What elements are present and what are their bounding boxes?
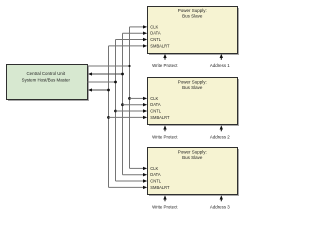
node CLK junction at U1 wire: [128, 65, 130, 67]
svg-text:Write Protect: Write Protect: [152, 134, 178, 139]
wire CNTL branch to PS1: [116, 39, 144, 41]
arrowhead SMBALRT into PS2: [143, 116, 147, 119]
svg-text:Power Supply:: Power Supply:: [178, 8, 207, 13]
arrow Write Protect into PS3: [163, 195, 166, 201]
svg-text:CLK: CLK: [150, 166, 158, 171]
label PS2 title: Power Supply: Bus Slave: [178, 79, 207, 90]
svg-text:Bus Slave: Bus Slave: [182, 85, 203, 90]
svg-text:SMBALRT: SMBALRT: [150, 115, 170, 120]
block U1: Central Control Unit (System Host/Bus Master): [7, 65, 90, 102]
arrow Write Protect into PS2: [163, 125, 166, 131]
arrowhead SMBALRT into U1: [88, 88, 92, 91]
svg-text:Address 2: Address 2: [210, 134, 230, 139]
wire SMBALRT from bus to U1: [92, 89, 109, 91]
arrow Write Protect into PS1: [163, 54, 166, 60]
wire SMBALRT branch to PS1: [109, 45, 144, 47]
wire CLK branch to PS3: [130, 167, 144, 169]
label PS1 title: Power Supply: Bus Slave: [178, 8, 207, 19]
net SMBALRT vertical bus: [108, 46, 110, 188]
svg-text:Power Supply:: Power Supply:: [178, 149, 207, 154]
wire CNTL from U1 to bus: [88, 81, 116, 83]
label U1: Central Control Unit / System Host-Bus Master: [22, 71, 71, 82]
svg-text:SMBALRT: SMBALRT: [150, 43, 170, 48]
svg-text:CNTL: CNTL: [150, 37, 161, 42]
svg-text:Bus Slave: Bus Slave: [182, 155, 203, 160]
wire CNTL branch to PS2: [116, 110, 144, 112]
arrowhead SMBALRT into PS3: [143, 186, 147, 189]
arrowhead SMBALRT into PS1: [143, 44, 147, 47]
arrowhead DATA into PS1: [143, 32, 147, 35]
svg-text:Power Supply:: Power Supply:: [178, 79, 207, 84]
wire CNTL branch to PS3: [116, 180, 144, 182]
net CLK vertical bus: [129, 27, 131, 169]
svg-text:System Host/Bus Master: System Host/Bus Master: [22, 78, 71, 83]
arrow Address 2 into PS2: [220, 125, 223, 131]
wire DATA from bus to U1: [92, 73, 123, 75]
net CNTL vertical bus: [115, 40, 117, 182]
wire SMBALRT branch to PS2: [109, 116, 144, 118]
arrowhead DATA into PS3: [143, 173, 147, 176]
label PS3 title: Power Supply: Bus Slave: [178, 149, 207, 160]
wire DATA branch to PS3: [123, 174, 144, 176]
block PS3: Power Supply Bus Slave 3: [148, 148, 240, 197]
node CNTL junction for PS2: [114, 110, 117, 113]
block PS2: Power Supply Bus Slave 2: [148, 78, 240, 127]
svg-text:DATA: DATA: [150, 31, 161, 36]
node CLK junction for PS2: [128, 97, 131, 100]
svg-text:CNTL: CNTL: [150, 179, 161, 184]
svg-text:CLK: CLK: [150, 96, 158, 101]
wire DATA branch to PS2: [123, 104, 144, 106]
arrowhead CLK into PS3: [143, 167, 147, 170]
svg-text:Address 3: Address 3: [210, 204, 230, 209]
net DATA vertical bus: [122, 33, 124, 175]
arrow Address 3 into PS3: [220, 195, 223, 201]
arrowhead CLK into PS1: [143, 25, 147, 28]
arrowhead CLK into PS2: [143, 97, 147, 100]
wire DATA branch to PS1: [123, 32, 144, 34]
svg-text:DATA: DATA: [150, 172, 161, 177]
svg-text:CNTL: CNTL: [150, 109, 161, 114]
arrowhead CNTL into PS3: [143, 179, 147, 182]
svg-text:Write Protect: Write Protect: [152, 63, 178, 68]
arrowhead CNTL into PS1: [143, 38, 147, 41]
svg-text:Write Protect: Write Protect: [152, 204, 178, 209]
node DATA junction for PS2: [121, 103, 124, 106]
wire SMBALRT branch to PS3: [109, 186, 144, 188]
node SMBALRT junction for PS2: [107, 116, 110, 119]
block PS1: Power Supply Bus Slave 1: [148, 7, 240, 56]
svg-text:SMBALRT: SMBALRT: [150, 185, 170, 190]
node CNTL junction at U1 wire: [114, 81, 117, 84]
wire CLK branch to PS1: [130, 26, 144, 28]
wire CLK from U1 to bus: [88, 65, 130, 67]
wire CLK branch to PS2: [130, 97, 144, 99]
svg-text:Central Control Unit: Central Control Unit: [27, 71, 66, 76]
svg-text:DATA: DATA: [150, 102, 161, 107]
arrowhead DATA into U1: [88, 72, 92, 75]
svg-text:CLK: CLK: [150, 24, 158, 29]
arrow Address 1 into PS1: [220, 54, 223, 60]
arrowhead DATA into PS2: [143, 103, 147, 106]
svg-text:Bus Slave: Bus Slave: [182, 14, 203, 19]
arrowhead CNTL into PS2: [143, 109, 147, 112]
svg-text:Address 1: Address 1: [210, 63, 230, 68]
node DATA junction at U1 wire: [121, 73, 124, 76]
node SMBALRT junction at U1 wire: [107, 89, 110, 92]
